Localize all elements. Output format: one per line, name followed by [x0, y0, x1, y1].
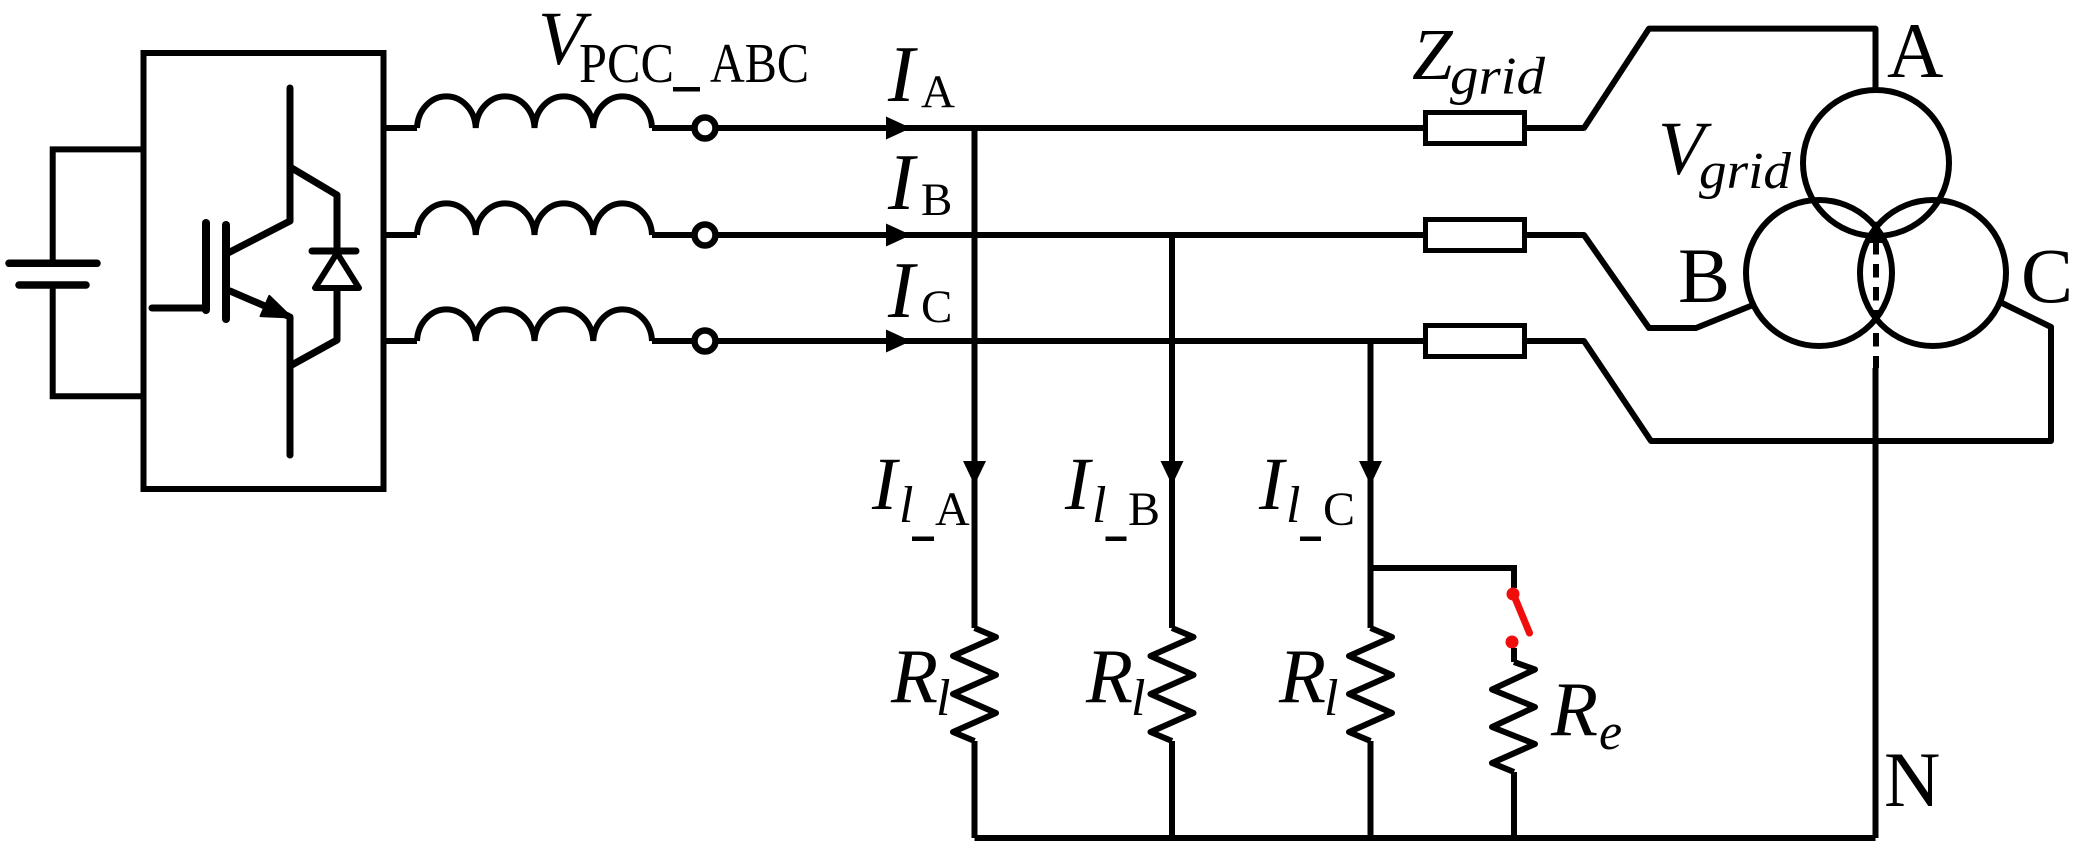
- svg-text:I: I: [1258, 443, 1287, 526]
- svg-text:R: R: [1278, 633, 1326, 719]
- diode D1 leads: [290, 167, 337, 366]
- inductor LA: [417, 96, 652, 128]
- wire B PCC to Zgrid: [716, 232, 1424, 238]
- arrow Il_A: [963, 461, 986, 485]
- load branch B wire: [1169, 235, 1175, 628]
- load branch A lower wire: [972, 741, 978, 838]
- resistor Rl B: [1151, 628, 1194, 741]
- load branch C wire: [1368, 341, 1374, 628]
- svg-text:A: A: [935, 483, 970, 536]
- PCC terminal A: [695, 118, 716, 139]
- svg-text:B: B: [921, 174, 952, 226]
- svg-text:Z: Z: [1412, 14, 1454, 95]
- PCC terminal C: [695, 331, 716, 352]
- neutral arrow: [1863, 221, 1889, 243]
- wire C to PCC: [652, 338, 695, 344]
- wire A to PCC: [652, 125, 695, 131]
- transistor Q1 collector: [228, 88, 290, 253]
- capacitor Cdc top plate: [9, 260, 97, 268]
- wire A to grid source: [1527, 29, 1876, 128]
- svg-text:R: R: [890, 633, 938, 719]
- svg-text:grid: grid: [1699, 143, 1792, 200]
- svg-text:I: I: [1064, 443, 1093, 526]
- wire C PCC to Zgrid: [716, 338, 1424, 344]
- svg-text:grid: grid: [1450, 48, 1546, 106]
- wire A PCC to Zgrid: [716, 125, 1424, 131]
- svg-text:l: l: [1286, 477, 1300, 534]
- branch wire to Re: [1371, 568, 1515, 588]
- resistor Rl C: [1349, 628, 1392, 741]
- source Vgrid circle A: [1803, 90, 1949, 236]
- svg-text:C: C: [921, 281, 952, 333]
- wire C to grid source: [1527, 303, 2051, 441]
- svg-text:B: B: [1678, 232, 1730, 319]
- load branch C lower wire: [1368, 741, 1374, 838]
- source Vgrid circle B: [1746, 200, 1892, 346]
- transistor Q1 gate lead: [152, 305, 202, 312]
- resistor Zgrid B: [1426, 220, 1525, 251]
- svg-text:e: e: [1599, 704, 1622, 761]
- wire switch to Re: [1511, 648, 1517, 662]
- transistor Q1 emitter arrow: [261, 296, 292, 318]
- svg-text:N: N: [1884, 736, 1940, 823]
- svg-text:R: R: [1550, 666, 1598, 752]
- svg-text:A: A: [1887, 7, 1943, 94]
- wire phase C from inverter: [384, 338, 418, 344]
- switch S contact dot bottom: [1506, 636, 1519, 649]
- diode D1 cathode bar: [312, 248, 356, 255]
- svg-text:l: l: [1324, 670, 1338, 727]
- neutral solid wire N: [1873, 368, 1879, 838]
- transistor Q1 emitter: [230, 291, 290, 455]
- wire B to grid source: [1527, 235, 1753, 328]
- wire phase B from inverter: [384, 232, 418, 238]
- neutral dashed wire: [1873, 241, 1879, 368]
- svg-text:PCC: PCC: [579, 33, 674, 95]
- svg-text:l: l: [936, 670, 950, 727]
- svg-text:C: C: [2021, 232, 2073, 319]
- resistor Rl A: [953, 628, 996, 741]
- PCC terminal B: [695, 225, 716, 246]
- load branch B lower wire: [1169, 741, 1175, 838]
- resistor Zgrid A: [1426, 113, 1525, 144]
- inductor LB: [417, 203, 652, 235]
- wire B to PCC: [652, 232, 695, 238]
- svg-text:B: B: [1128, 483, 1160, 536]
- capacitor Cdc bottom plate: [19, 281, 86, 289]
- wire phase A from inverter: [384, 125, 418, 131]
- arrow IC: [886, 330, 911, 353]
- inductor LC: [417, 309, 652, 341]
- svg-text:l: l: [1131, 670, 1145, 727]
- svg-text:l: l: [1092, 477, 1106, 534]
- svg-text:l: l: [899, 477, 913, 534]
- bottom bus wire: [975, 835, 1876, 841]
- svg-text:ABC: ABC: [710, 33, 809, 95]
- svg-text:R: R: [1085, 633, 1133, 719]
- arrow Il_C: [1359, 461, 1382, 485]
- resistor Zgrid C: [1426, 326, 1525, 357]
- diode D1 triangle: [315, 253, 359, 288]
- load branch A wire: [972, 128, 978, 628]
- switch S blade: [1515, 598, 1530, 633]
- svg-text:C: C: [1323, 483, 1355, 536]
- arrow IB: [886, 224, 911, 247]
- source Vgrid circle C: [1860, 200, 2006, 346]
- inverter box: [144, 53, 384, 489]
- transistor Q1 gate bar: [202, 223, 210, 310]
- svg-text:A: A: [921, 66, 955, 118]
- svg-text:I: I: [887, 139, 918, 227]
- arrow Il_B: [1161, 461, 1184, 485]
- wire Re to bus: [1511, 772, 1517, 838]
- resistor Re: [1492, 662, 1535, 772]
- svg-text:I: I: [887, 31, 918, 119]
- transistor Q1 body bar: [222, 225, 230, 319]
- capacitor Cdc wires: [53, 149, 144, 396]
- switch S contact dot top: [1507, 588, 1520, 601]
- svg-text:I: I: [887, 247, 918, 335]
- svg-text:I: I: [871, 443, 900, 526]
- arrow IA: [886, 117, 911, 140]
